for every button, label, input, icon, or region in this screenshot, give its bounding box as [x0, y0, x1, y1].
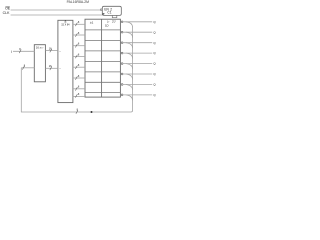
bus curve row 4	[126, 53, 133, 59]
product term wires	[73, 24, 85, 96]
wire Q6	[123, 73, 152, 75]
svg-text:16 x ▷: 16 x ▷	[36, 45, 45, 49]
slash row 7	[75, 87, 77, 91]
svg-text:Q: Q	[153, 93, 156, 97]
bus curve row 2	[126, 32, 133, 38]
inversion bubble OE	[100, 9, 102, 11]
wire row 8	[73, 96, 85, 98]
wire buffer to AND 2	[45, 67, 58, 69]
wire OE	[11, 9, 101, 11]
bubble Q2	[121, 31, 123, 33]
wire Q8	[123, 94, 152, 96]
dynamic input triangle	[103, 13, 105, 15]
svg-text:Q: Q	[153, 41, 156, 45]
wire row 4	[73, 56, 85, 58]
control block common control	[102, 6, 121, 15]
junction dot feedback	[91, 111, 93, 113]
wire row 2	[73, 34, 85, 36]
svg-text:PAL16R8A-2M: PAL16R8A-2M	[67, 0, 90, 4]
svg-text:8: 8	[78, 75, 80, 78]
svg-text:≥1: ≥1	[90, 20, 94, 24]
wire Q3	[123, 42, 152, 44]
svg-text:8: 8	[78, 93, 80, 96]
bubble Q3	[121, 42, 123, 44]
wire row 5	[73, 66, 85, 68]
svg-text:1D: 1D	[105, 24, 109, 28]
bus curve row 8	[126, 95, 133, 101]
svg-text:8: 8	[78, 21, 80, 24]
svg-text:Q: Q	[153, 72, 156, 76]
slash row 8	[75, 94, 77, 98]
svg-text:8: 8	[77, 109, 79, 112]
svg-text:8: 8	[78, 64, 80, 67]
stack row dividers	[85, 30, 120, 93]
wire Q2	[123, 31, 152, 33]
bus curve row 3	[126, 43, 133, 49]
control block tab to register column	[112, 15, 117, 17]
bus curve row 6	[126, 74, 133, 80]
svg-text:C1: C1	[107, 11, 111, 15]
wire Q4	[123, 52, 152, 54]
bubble Q7	[121, 84, 123, 86]
slash row 1	[75, 23, 77, 27]
bubble Q8	[121, 94, 123, 96]
svg-text:8: 8	[78, 43, 80, 46]
svg-text:8: 8	[78, 32, 80, 35]
output bubbles and lines	[121, 21, 123, 96]
slash feedback bus	[76, 110, 78, 114]
bubble Q6	[121, 73, 123, 75]
bubble Q4	[121, 52, 123, 54]
svg-text:Q: Q	[153, 20, 156, 24]
slash row 3	[75, 44, 77, 48]
svg-text:8: 8	[78, 53, 80, 56]
svg-text:Q: Q	[153, 30, 156, 34]
wire row 1	[73, 23, 85, 25]
svg-text:2▽: 2▽	[112, 20, 117, 24]
wire Q5	[123, 63, 152, 65]
svg-text:Q: Q	[153, 83, 156, 87]
bubble Q5	[121, 63, 123, 65]
svg-text:Q: Q	[153, 62, 156, 66]
svg-text:8: 8	[78, 86, 80, 89]
wire feedback into buffer	[21, 67, 34, 69]
slash row 2	[75, 33, 77, 37]
svg-text:I: I	[11, 50, 12, 54]
OR/register stack outer	[85, 19, 120, 97]
wire row 7	[73, 88, 85, 90]
svg-text:32 X 64: 32 X 64	[61, 23, 70, 26]
wire Q1	[123, 21, 152, 23]
bus curve row 1	[126, 22, 133, 28]
svg-text:8: 8	[24, 65, 26, 68]
bus curve row 7	[126, 85, 133, 91]
slash row 5	[75, 65, 77, 69]
wire I to buffer	[13, 50, 34, 52]
input buffer box	[34, 45, 45, 82]
bubble Q1	[121, 21, 123, 23]
wire row 3	[73, 45, 85, 47]
wire Q7	[123, 84, 152, 86]
feedback bus vertical and bottom run	[21, 27, 132, 113]
svg-text:CLK: CLK	[3, 11, 10, 15]
slash row 4	[75, 55, 77, 59]
AND array box	[58, 20, 73, 102]
wire CLK	[11, 14, 103, 16]
slash row 6	[75, 76, 77, 80]
bus curve row 5	[126, 64, 133, 70]
wire buffer to AND 1	[45, 50, 58, 52]
svg-text:Q: Q	[153, 51, 156, 55]
svg-text:∼: ∼	[59, 50, 62, 54]
wire row 6	[73, 77, 85, 79]
stack middle divider	[101, 19, 103, 97]
svg-text:∼: ∼	[59, 67, 62, 71]
feedback bus collector	[21, 22, 132, 114]
